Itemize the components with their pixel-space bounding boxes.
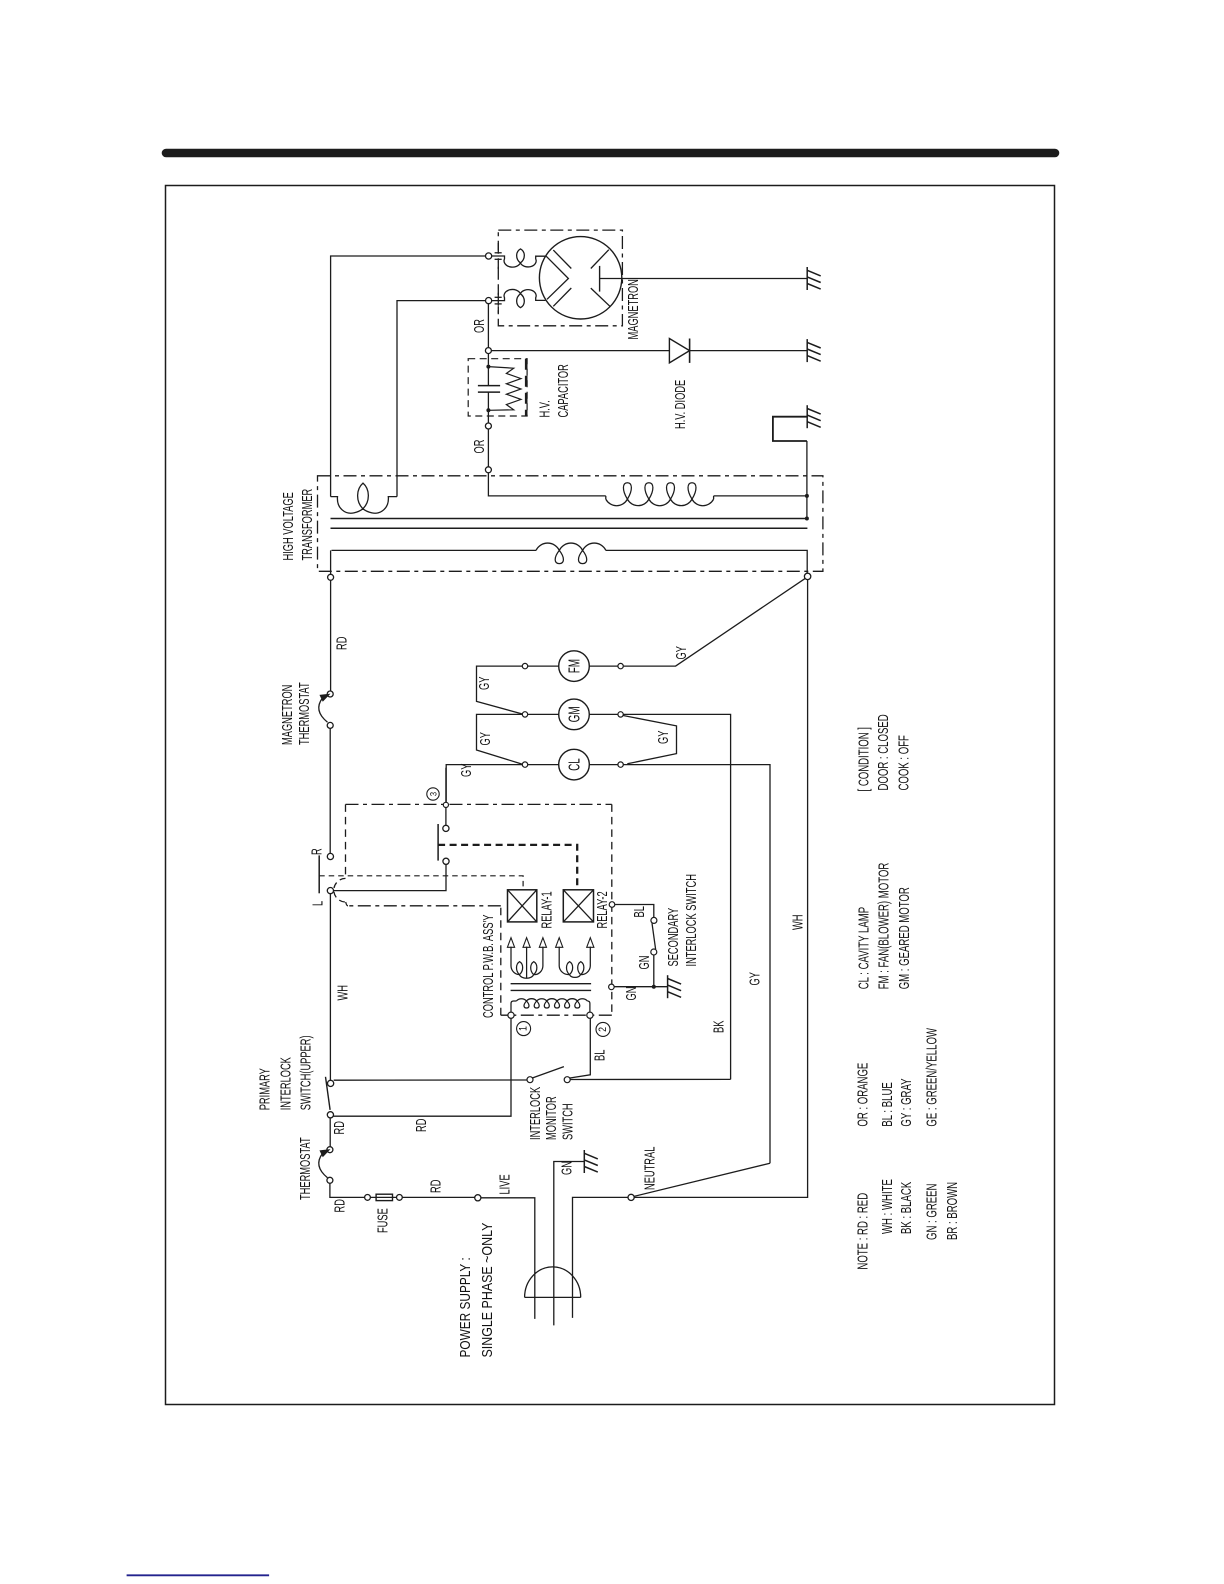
transformer filament winding bbox=[331, 483, 397, 513]
filament feedthrough marks pin2 bbox=[495, 296, 502, 298]
svg-text:INTERLOCK SWITCH: INTERLOCK SWITCH bbox=[683, 874, 700, 966]
svg-text:INTERLOCK: INTERLOCK bbox=[527, 1086, 544, 1140]
circled 3 bbox=[427, 788, 439, 800]
H.V. capacitor dashed enclosure bbox=[468, 359, 527, 416]
footer rule bbox=[127, 1574, 270, 1576]
wire filament B (OR) bbox=[397, 301, 486, 497]
ground (magnetron anode) bbox=[806, 267, 808, 290]
thermostat blade arc bbox=[319, 1153, 328, 1177]
geared motor GM bbox=[559, 699, 590, 730]
svg-text:BR : BROWN: BR : BROWN bbox=[944, 1182, 961, 1240]
transformer primary wire right bbox=[606, 550, 807, 573]
magnetron thermostat blade arc bbox=[319, 698, 328, 722]
primary interlock blade bbox=[326, 1077, 331, 1110]
magnetron U1 dashed enclosure bbox=[498, 230, 622, 326]
node circle below transformer right bbox=[804, 573, 810, 579]
svg-text:GY : GRAY: GY : GRAY bbox=[898, 1078, 915, 1127]
svg-text:HIGH VOLTAGE: HIGH VOLTAGE bbox=[280, 492, 297, 560]
svg-text:CL: CL bbox=[565, 758, 583, 771]
pwb outline left lower bbox=[500, 906, 502, 1015]
wire L to center switch bbox=[334, 864, 447, 890]
circled 1 bbox=[517, 1022, 531, 1036]
svg-text:PRIMARY: PRIMARY bbox=[256, 1068, 273, 1111]
control P.W.B. assembly dashed outline top bbox=[346, 803, 612, 805]
interlock monitor switch contacts bbox=[527, 1077, 533, 1083]
transformer primary winding wire left bbox=[332, 549, 537, 551]
plug dome bbox=[525, 1267, 581, 1298]
svg-text:GM: GM bbox=[565, 706, 583, 722]
pwb transformer core bbox=[511, 983, 591, 985]
cavity lamp CL bbox=[559, 749, 590, 780]
relay blade R-L bbox=[318, 855, 320, 893]
wire WH rail bbox=[634, 580, 807, 1198]
wire rail to R contact bbox=[329, 728, 331, 853]
svg-text:L: L bbox=[309, 901, 326, 906]
svg-text:BL : BLUE: BL : BLUE bbox=[879, 1082, 896, 1126]
ground (H.V. diode) bbox=[806, 339, 808, 362]
svg-text:BL: BL bbox=[591, 1050, 608, 1061]
wire live to plug bbox=[481, 1198, 535, 1319]
wire BL jog to terminal 2 bbox=[570, 1018, 590, 1078]
magnetron filament coil lower bbox=[492, 289, 546, 307]
svg-text:GY: GY bbox=[655, 730, 672, 744]
bleeder resistor R1 zigzag bbox=[488, 367, 521, 411]
svg-text:POWER SUPPLY :: POWER SUPPLY : bbox=[457, 1257, 474, 1357]
wire node to capacitor bbox=[487, 354, 489, 365]
svg-text:GY: GY bbox=[476, 676, 493, 690]
wire thermostat to fuse corner bbox=[330, 1183, 365, 1197]
pwb transformer secondary arrows bbox=[507, 938, 514, 948]
magnetron anode lead wire bbox=[600, 278, 807, 280]
svg-text:MONITOR: MONITOR bbox=[543, 1096, 560, 1140]
pwb secondary group1 bbox=[511, 947, 543, 979]
fuse F1 bbox=[365, 1195, 371, 1201]
CL stub wires bbox=[528, 764, 559, 766]
svg-text:MAGNETRON: MAGNETRON bbox=[279, 685, 296, 745]
live terminal bbox=[475, 1195, 481, 1201]
svg-text:1: 1 bbox=[518, 1026, 530, 1031]
node circle at transformer bbox=[485, 467, 491, 473]
svg-text:RD: RD bbox=[427, 1180, 444, 1193]
GN terminal on pwb bbox=[609, 984, 615, 990]
secondary interlock contact upper bbox=[651, 917, 657, 923]
wire to secondary interlock bbox=[615, 905, 654, 918]
magnetron body circle bbox=[539, 237, 621, 319]
svg-text:GY: GY bbox=[458, 763, 475, 777]
FM stub wires bbox=[528, 665, 559, 667]
wire to GN junction bbox=[653, 955, 655, 987]
magnetron thermostat contacts bbox=[327, 691, 333, 697]
magnetron anode vanes bbox=[553, 250, 571, 268]
transformer secondary winding wire bbox=[488, 473, 605, 496]
transformer primary wire left drop bbox=[330, 550, 332, 574]
svg-text:COOK : OFF: COOK : OFF bbox=[895, 735, 912, 791]
svg-text:RD: RD bbox=[331, 1199, 348, 1212]
svg-text:MAGNETRON: MAGNETRON bbox=[625, 279, 642, 339]
wire GM right to BK rail bbox=[623, 714, 730, 1079]
wire RD rail bbox=[330, 580, 332, 691]
wire neutral to plug bbox=[573, 1197, 629, 1318]
transformer primary coil bbox=[536, 543, 606, 550]
ground (mains earth) bbox=[583, 1150, 585, 1173]
H.V. diode D1 bbox=[669, 339, 689, 363]
svg-text:GN: GN bbox=[636, 956, 653, 970]
wire GM left bbox=[477, 714, 523, 764]
capacitor C1 plates bbox=[487, 367, 489, 386]
svg-text:[ CONDITION ]: [ CONDITION ] bbox=[855, 727, 872, 791]
svg-text:SWITCH: SWITCH bbox=[559, 1103, 576, 1140]
wire capacitor to node2 bbox=[487, 410, 489, 423]
svg-text:OR : ORANGE: OR : ORANGE bbox=[854, 1063, 871, 1127]
svg-text:RD: RD bbox=[333, 637, 350, 650]
wire FM left bbox=[477, 666, 523, 714]
relay-1 control dashed link bbox=[319, 876, 523, 890]
relay RELAY-2 bbox=[563, 890, 593, 922]
svg-text:GN: GN bbox=[558, 1161, 575, 1175]
svg-text:SWITCH(UPPER): SWITCH(UPPER) bbox=[297, 1035, 314, 1110]
svg-text:BK : BLACK: BK : BLACK bbox=[898, 1181, 915, 1234]
svg-text:GY: GY bbox=[746, 972, 763, 986]
svg-text:FM : FAN(BLOWER) MOTOR: FM : FAN(BLOWER) MOTOR bbox=[875, 863, 892, 990]
pwb outline bottom-left arm bbox=[348, 905, 501, 907]
GM stub wires bbox=[528, 713, 559, 715]
svg-text:FUSE: FUSE bbox=[374, 1208, 391, 1233]
svg-text:CONTROL P.W.B. ASS'Y: CONTROL P.W.B. ASS'Y bbox=[480, 914, 497, 1018]
fan motor FM bbox=[559, 651, 590, 682]
wire OR segment bbox=[487, 429, 489, 467]
earth wire GN bbox=[554, 1162, 584, 1326]
svg-text:INTERLOCK: INTERLOCK bbox=[277, 1057, 294, 1111]
wire GM-CL right bulge (GY) bbox=[623, 716, 676, 764]
header rule bar bbox=[166, 149, 1055, 158]
svg-text:RD: RD bbox=[331, 1121, 348, 1134]
pwb terminal 1 bbox=[508, 1012, 514, 1018]
svg-text:CAPACITOR: CAPACITOR bbox=[555, 364, 572, 417]
primary interlock contact upper bbox=[328, 1080, 334, 1086]
CL terminals bbox=[522, 762, 527, 767]
GM terminals bbox=[522, 712, 527, 717]
secondary interlock contact lower bbox=[651, 949, 657, 955]
transformer secondary coil bbox=[606, 499, 714, 506]
wire core tap vertical bbox=[806, 441, 808, 519]
secondary interlock blade bbox=[652, 923, 656, 949]
svg-text:SINGLE PHASE ~ONLY: SINGLE PHASE ~ONLY bbox=[479, 1223, 495, 1358]
pwb terminal 2 bbox=[587, 1012, 593, 1018]
svg-text:LIVE: LIVE bbox=[496, 1174, 513, 1194]
svg-text:GY: GY bbox=[477, 732, 494, 746]
ground (secondary interlock) bbox=[667, 975, 669, 998]
relay RELAY-1 bbox=[508, 890, 537, 922]
svg-text:DOOR : CLOSED: DOOR : CLOSED bbox=[875, 714, 892, 790]
svg-text:BK: BK bbox=[710, 1020, 727, 1033]
pwb outline right bbox=[611, 804, 613, 1015]
wire GN to ground bbox=[614, 986, 667, 988]
ground (transformer case) bbox=[806, 405, 808, 428]
contact R bbox=[327, 853, 333, 859]
FM terminals bbox=[522, 663, 527, 668]
wire GY diagonal from transformer to FM bbox=[624, 578, 806, 666]
switch contact upper bbox=[443, 825, 449, 831]
svg-text:GN : GREEN: GN : GREEN bbox=[923, 1184, 940, 1240]
wire fuse to live terminal bbox=[402, 1196, 475, 1198]
magnetron filament coil upper bbox=[492, 249, 546, 267]
thermostat contacts bbox=[327, 1147, 333, 1153]
pwb transformer primary coil bbox=[510, 1004, 512, 1013]
relay-2 control dashed link bbox=[438, 845, 577, 890]
svg-text:SECONDARY: SECONDARY bbox=[665, 907, 682, 966]
wire rail L down bbox=[329, 894, 331, 1080]
svg-text:THERMOSTAT: THERMOSTAT bbox=[297, 1137, 314, 1200]
pwb outline left with hop over L wire bbox=[345, 804, 347, 878]
node on pwb edge bbox=[443, 802, 448, 807]
switch blade bbox=[437, 824, 439, 861]
transformer core lines bbox=[331, 518, 808, 520]
wire node to H.V. diode bbox=[491, 350, 669, 352]
node circle below transformer left bbox=[328, 574, 334, 580]
svg-text:RD: RD bbox=[413, 1119, 430, 1132]
wire GY diagonal to neutral bbox=[634, 1163, 770, 1196]
relay-2 output terminal bbox=[609, 902, 615, 908]
chassis jog to ground bbox=[773, 417, 807, 441]
svg-text:THERMOSTAT: THERMOSTAT bbox=[296, 682, 313, 745]
junction dot bbox=[652, 985, 656, 989]
svg-text:GE : GREEN/YELLOW: GE : GREEN/YELLOW bbox=[923, 1028, 940, 1127]
monitor switch blade bbox=[532, 1067, 564, 1078]
pwb secondary group2 bbox=[559, 947, 590, 978]
primary interlock contact lower bbox=[327, 1112, 333, 1118]
wire CL left to switch node bbox=[446, 765, 522, 802]
wire diode to ground bbox=[690, 350, 807, 352]
magnetron filament terminal pin 2 bbox=[486, 298, 492, 304]
wire pin2 to node bbox=[487, 304, 489, 348]
wire CL right (GY) bbox=[623, 765, 770, 1164]
svg-text:H.V. DIODE: H.V. DIODE bbox=[672, 380, 689, 429]
svg-text:RELAY-2: RELAY-2 bbox=[594, 891, 611, 928]
svg-text:TRANSFORMER: TRANSFORMER bbox=[299, 489, 316, 561]
svg-text:R: R bbox=[308, 848, 325, 855]
svg-text:NOTE : RD : RED: NOTE : RD : RED bbox=[854, 1193, 871, 1270]
capacitor inner thick dashed edge bbox=[525, 359, 528, 416]
circled 2 bbox=[596, 1022, 610, 1036]
filament feedthrough marks pin1 bbox=[495, 252, 502, 254]
wire BK right segment bbox=[570, 1078, 730, 1080]
switch contact lower bbox=[443, 858, 449, 864]
svg-text:WH : WHITE: WH : WHITE bbox=[879, 1179, 896, 1234]
node circle bbox=[485, 423, 491, 429]
svg-text:GY: GY bbox=[673, 646, 690, 660]
svg-text:2: 2 bbox=[597, 1027, 609, 1032]
high voltage transformer dashed enclosure bbox=[318, 476, 823, 572]
svg-text:WH: WH bbox=[334, 985, 351, 1000]
schematic border frame bbox=[166, 186, 1055, 1405]
wire terminal1 to interlock (RD) bbox=[334, 1018, 512, 1116]
svg-text:3: 3 bbox=[427, 792, 438, 796]
wire interlock to thermostat bbox=[329, 1118, 331, 1147]
magnetron filament terminal pin 1 bbox=[486, 253, 492, 259]
wire BK horizontal bbox=[334, 1079, 527, 1081]
node (diode tap) bbox=[485, 348, 491, 354]
neutral node circle bbox=[628, 1194, 634, 1200]
svg-text:NEUTRAL: NEUTRAL bbox=[641, 1147, 658, 1190]
svg-text:GN: GN bbox=[623, 987, 640, 1001]
junction dot top bbox=[486, 365, 490, 369]
contact L bbox=[327, 888, 333, 894]
svg-text:H.V.: H.V. bbox=[536, 400, 553, 417]
magnetron cathode bar bbox=[599, 266, 601, 292]
pwb outline bottom bbox=[501, 1014, 612, 1016]
svg-text:OR: OR bbox=[471, 319, 488, 333]
svg-text:GM : GEARED MOTOR: GM : GEARED MOTOR bbox=[896, 887, 913, 989]
svg-text:RELAY-1: RELAY-1 bbox=[538, 891, 555, 928]
svg-text:FM: FM bbox=[565, 659, 583, 673]
svg-text:WH: WH bbox=[789, 915, 806, 930]
svg-text:OR: OR bbox=[471, 440, 488, 454]
svg-text:CL : CAVITY LAMP: CL : CAVITY LAMP bbox=[855, 907, 872, 989]
junction dot bottom bbox=[486, 408, 490, 412]
wire filament A (OR) bbox=[331, 256, 486, 497]
wire secondary to core tap bbox=[714, 495, 807, 497]
wire node up to CL bbox=[445, 768, 447, 803]
svg-text:BL: BL bbox=[631, 906, 648, 917]
